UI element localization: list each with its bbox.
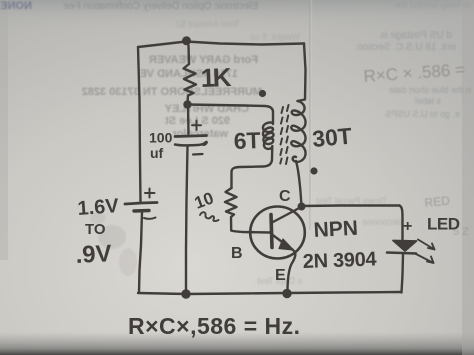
wire battery to bottom rail <box>139 213 142 293</box>
svg-text:TO: TO <box>85 221 106 238</box>
wire cap to bottom rail <box>186 146 188 293</box>
capacitor C1 bottom plate <box>175 142 207 146</box>
transistor emitter stroke <box>272 235 293 251</box>
svg-text:e, go to U.S USPS: e, go to U.S USPS <box>385 109 460 119</box>
svg-text:deconooe: deconooe <box>362 217 402 227</box>
svg-text:R×C×,586 = Hz.: R×C×,586 = Hz. <box>128 313 301 339</box>
battery + sign <box>145 189 155 198</box>
wire top right corner down to 30T <box>298 44 306 102</box>
svg-text:s label: s label <box>415 96 441 106</box>
vertical crease <box>309 0 311 230</box>
transistor collector stroke <box>272 207 302 223</box>
wire LED to bottom rail <box>402 255 404 293</box>
svg-text:1K: 1K <box>200 62 232 93</box>
node top junction dot <box>182 36 191 45</box>
node C junction dot <box>298 203 306 211</box>
transistor Q1 circle <box>250 207 305 259</box>
svg-text:30T: 30T <box>311 123 353 152</box>
svg-text:Electronic Option Delivery Con: Electronic Option Delivery Confirmation … <box>63 1 258 12</box>
stray dot upper <box>259 90 266 97</box>
svg-text:NPN: NPN <box>313 217 358 242</box>
faint pencil marks (front) <box>363 60 469 238</box>
transformer core dashes <box>280 107 283 164</box>
label 10 squiggle (ohm) <box>200 212 219 221</box>
transistor base bar <box>271 215 272 248</box>
smudges <box>90 212 137 276</box>
svg-text:d US Postage is: d US Postage is <box>380 30 452 41</box>
pencil formula top right: RXC x .586 = <box>363 60 466 86</box>
LED light arrow 2 <box>416 254 434 263</box>
LED light arrow 1 <box>418 240 435 250</box>
svg-text:RED: RED <box>424 193 451 210</box>
wire bottom rail <box>138 292 401 294</box>
svg-text:E: E <box>275 267 286 284</box>
svg-text:ot wrap around the: ot wrap around the <box>395 0 470 10</box>
svg-text:1.6V: 1.6V <box>77 195 120 220</box>
wire node C to LED branch <box>302 204 400 207</box>
svg-text:2N 3904: 2N 3904 <box>302 248 377 273</box>
wire LED branch down <box>400 206 403 241</box>
svg-text:n the blue short date: n the blue short date <box>389 85 471 95</box>
svg-text:.9V: .9V <box>75 240 112 269</box>
node cap junction dot <box>181 289 190 298</box>
capacitor C1 top plate <box>175 136 207 137</box>
svg-text:NONE: NONE <box>0 0 32 12</box>
svg-text:C: C <box>279 188 291 205</box>
svg-text:+: + <box>403 218 412 235</box>
wire node A to 6T <box>188 105 274 113</box>
node A junction dot <box>183 100 191 108</box>
transformer 30T winding <box>291 101 305 162</box>
resistor R1 1K <box>184 46 197 104</box>
left paper edge shading <box>0 0 8 260</box>
wire left branch (battery +) <box>138 47 141 202</box>
capacitor - sign <box>193 153 203 156</box>
capacitor C1 lead top <box>187 106 190 135</box>
svg-text:6T: 6T <box>233 127 261 154</box>
svg-text:Weight: 8 oz: Weight: 8 oz <box>250 32 300 42</box>
wire emitter to bottom rail <box>288 251 296 293</box>
svg-text:B: B <box>231 245 243 262</box>
emitter arrowhead <box>279 239 294 250</box>
pencil RED near LED <box>424 193 469 238</box>
right paper edge shading <box>462 0 474 355</box>
svg-text:MURFREELSBORO TN 37130 3282: MURFREELSBORO TN 37130 3282 <box>82 86 262 98</box>
resistor R2 10 <box>225 188 237 231</box>
battery B1 minus plate <box>134 209 149 213</box>
battery - sign <box>144 218 156 219</box>
LED D1 triangle <box>393 241 417 252</box>
LED D1 cathode bar <box>387 253 416 254</box>
capacitor + sign <box>192 121 201 131</box>
svg-text:LED: LED <box>427 215 460 234</box>
wire base <box>231 231 270 233</box>
stray dot right <box>310 167 317 174</box>
battery B1 plus plate <box>125 203 157 205</box>
transformer 6T winding <box>232 112 274 188</box>
svg-text:100: 100 <box>149 130 173 146</box>
svg-text:ent. 18 U.S.C. Section: ent. 18 U.S.C. Section <box>357 42 456 53</box>
svg-text:watercolor: watercolor <box>172 128 229 140</box>
wire top rail <box>138 42 304 48</box>
wire 30T to collector node C <box>296 161 302 206</box>
svg-text:uf: uf <box>150 145 164 161</box>
node emitter junction dot <box>282 289 291 298</box>
svg-text:Total Amount $2: Total Amount $2 <box>175 19 240 29</box>
